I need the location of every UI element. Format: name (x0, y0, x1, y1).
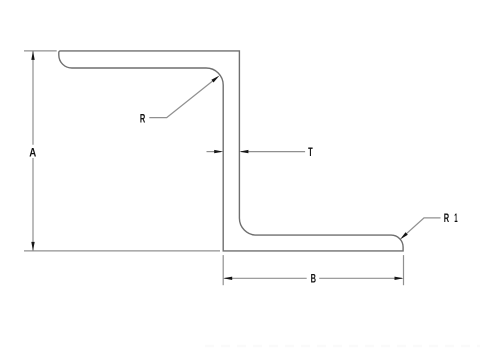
radius R leader arrowhead (211, 76, 219, 83)
faint cropped text row at bottom edge (205, 345, 480, 348)
radius R1 leader arrowhead (400, 232, 408, 239)
dimension A top extension line (24, 50, 57, 52)
dimension B left arrowhead (223, 277, 232, 280)
dimension A top arrowhead (31, 51, 34, 60)
svg-text:1: 1 (454, 211, 458, 225)
dimension B left extension line (222, 255, 224, 285)
dimension T right line (241, 151, 305, 153)
svg-text:B: B (311, 272, 317, 286)
dimension A bottom extension line (24, 250, 220, 252)
svg-text:R: R (444, 211, 450, 225)
radius R leader line (149, 78, 217, 118)
radius R1 leader line (402, 218, 441, 238)
dimension T left arrowhead (214, 150, 223, 153)
dimension B right arrowhead (395, 277, 404, 280)
dimension T right arrowhead (239, 150, 248, 153)
dimension B dimension line (225, 277, 403, 279)
svg-text:T: T (308, 145, 313, 159)
svg-text:A: A (29, 145, 36, 159)
Z-bar profile outline (59, 51, 403, 251)
dimension A bottom arrowhead (31, 242, 34, 251)
dimension A dimension line (32, 51, 34, 251)
dimension T left line (207, 151, 222, 153)
svg-text:R: R (140, 112, 146, 126)
dimension B right extension line (403, 255, 405, 285)
